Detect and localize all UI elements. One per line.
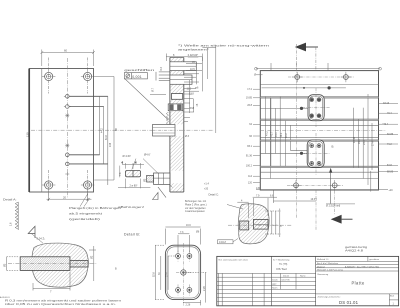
counterbore hole bottom-right [81, 170, 94, 201]
svg-text:*49.4: *49.4 [383, 123, 389, 126]
right block lines [316, 256, 399, 305]
svg-text:ab,5 eingesenkt: ab,5 eingesenkt [69, 212, 102, 216]
svg-text:Blatt: Blatt [390, 295, 394, 298]
internal dim verticals left with rotated labels [266, 97, 286, 167]
svg-text:10.5: 10.5 [190, 68, 195, 71]
left view vertical centerline [66, 58, 68, 198]
svg-text:(gerändelt): (gerändelt) [69, 217, 100, 221]
svg-text:geschliffen: geschliffen [124, 68, 155, 72]
svg-text:0,001: 0,001 [132, 75, 142, 79]
svg-text:Datum: Datum [283, 275, 289, 278]
upper obround left leader dot [260, 107, 308, 110]
svg-text:0.04 Z: 0.04 Z [219, 241, 226, 244]
svg-text:A 90MnV8 ~ 62+2 HRC 9 DIN: A 90MnV8 ~ 62+2 HRC 9 DIN 17350 [345, 265, 380, 268]
detail B holes top pair [176, 254, 192, 259]
svg-text:Benennung: Benennung [318, 274, 329, 276]
svg-text:Detail A:: Detail A: [3, 198, 17, 201]
svg-text:16.6: 16.6 [186, 224, 191, 227]
small cross mark 2 [65, 144, 69, 148]
svg-text:gez.datum: gez.datum [369, 258, 379, 261]
main plate outline [260, 71, 378, 190]
dashed lines below plate [334, 191, 336, 216]
plate horizontal band y119-120.5 right [260, 119, 378, 121]
svg-text:60.85: 60.85 [387, 133, 394, 136]
detail A pin step [70, 260, 88, 267]
svg-text:0.04 Z↓: 0.04 Z↓ [37, 236, 46, 240]
svg-text:108: 108 [109, 142, 112, 147]
detail A hatched blob [32, 243, 88, 287]
svg-text:Ø: Ø [254, 74, 256, 77]
detail C stepped bore [240, 221, 249, 230]
svg-text:52.6: 52.6 [152, 272, 155, 277]
section cut dashed lines top [297, 44, 316, 71]
svg-text:bearb: bearb [272, 279, 278, 282]
svg-text:angelassen*: angelassen* [178, 47, 209, 51]
svg-text:46.4: 46.4 [387, 112, 392, 115]
left outside dim labels [246, 69, 257, 184]
hole top-right crosshair [341, 72, 351, 82]
detail B outer obround [165, 245, 200, 299]
holes centerline top [288, 76, 354, 78]
lower obround centerlines [300, 133, 330, 175]
svg-text:100.2: 100.2 [246, 164, 253, 167]
counterbore hole bottom-left [42, 170, 55, 201]
left view thick left edge [28, 69, 30, 193]
svg-text:zusammenpassen: zusammenpassen [185, 210, 205, 213]
dim 19.3 below plate [273, 191, 316, 204]
left view plate outline [30, 69, 94, 193]
svg-text:27.4: 27.4 [372, 141, 375, 146]
svg-text:64.2: 64.2 [285, 133, 288, 138]
small center hole 4 with leader [66, 162, 108, 166]
svg-text:58.1: 58.1 [280, 132, 283, 137]
svg-text:Ø4.6': Ø4.6' [144, 153, 151, 157]
svg-text:+20: +20 [389, 189, 394, 192]
section mid bore feature [171, 94, 182, 100]
main view vertical centerline left holes [296, 62, 298, 218]
svg-text:120: 120 [248, 181, 253, 184]
datum line with end circles [255, 67, 382, 70]
upper obround centerlines [302, 88, 330, 127]
svg-text:2 ø·80°: 2 ø·80° [130, 185, 138, 188]
section hole feature with dark plugs [168, 104, 183, 111]
plate horizontal band y166-167.6 right [260, 166, 378, 168]
title block outer frame [217, 256, 399, 305]
svg-text:Material:: Material: [317, 265, 325, 268]
stud feature [147, 173, 170, 184]
detail B holes bottom pair [176, 288, 192, 293]
section right dim stack [150, 47, 216, 134]
svg-text:øBohrungen!: øBohrungen! [118, 206, 145, 209]
left view horizontal centerline [31, 129, 214, 131]
parts list columns [218, 273, 296, 305]
hole top-left crosshair [292, 72, 302, 82]
svg-text:DS 01.01: DS 01.01 [339, 300, 359, 305]
section hatch upper strip [170, 58, 184, 193]
counterbore hole top-left [42, 58, 55, 94]
svg-text:2.26: 2.26 [203, 286, 206, 291]
svg-text:Platte: Platte [352, 281, 365, 286]
svg-text:2.26: 2.26 [186, 304, 191, 307]
svg-text:Ø.7: Ø.7 [152, 87, 155, 92]
svg-text:DS Tool: DS Tool [277, 267, 287, 271]
svg-text:über 0,05 zu am Querausrichten: über 0,05 zu am Querausrichten hinterlas… [5, 303, 117, 306]
svg-text:17.2: 17.2 [247, 88, 252, 91]
lower obround left leader dot [260, 152, 307, 155]
detail A pin slot [20, 257, 70, 271]
svg-text:91.36: 91.36 [246, 155, 253, 158]
geschliffen leader [125, 79, 169, 120]
small cross mark 3 [65, 172, 69, 176]
svg-text:114: 114 [248, 175, 253, 178]
svg-text:130: 130 [25, 132, 29, 137]
svg-text:B.: B. [332, 145, 335, 149]
band glow lines [260, 97, 378, 167]
lower obround boss [307, 140, 324, 168]
svg-text:11.2: 11.2 [187, 87, 192, 90]
detail A centerline [8, 263, 97, 265]
svg-text:49.4: 49.4 [275, 132, 278, 137]
upper obround boss [308, 95, 324, 121]
svg-text:Ø.3: Ø.3 [185, 135, 190, 138]
svg-text:12.8: 12.8 [189, 93, 194, 96]
svg-text:Ø 2,5(10 tief): Ø 2,5(10 tief) [326, 205, 340, 208]
section left flange marks [156, 72, 170, 81]
plate horizontal band y96-98 left [260, 97, 378, 99]
svg-text:40.2: 40.2 [265, 131, 268, 136]
note leader to bottom hole [80, 194, 88, 207]
svg-text:A4/Q2 4.8: A4/Q2 4.8 [345, 249, 364, 252]
svg-text:84.8: 84.8 [387, 164, 392, 167]
surface flag triangle [28, 226, 35, 238]
svg-text:Bez 4 d'or? Werkz-bau: Bez 4 d'or? Werkz-bau [317, 262, 339, 265]
detail C 0.04 Z box [218, 240, 234, 244]
flag leader [32, 234, 44, 244]
plate horizontal band y140 left [260, 140, 378, 142]
svg-text:Werkstoff: 1.154 P=xx,xx kg: Werkstoff: 1.154 P=xx,xx kg [317, 269, 344, 272]
svg-text:23.4: 23.4 [363, 140, 366, 145]
main plate right inner vertical [367, 94, 369, 185]
ext verticals above plate top [271, 63, 328, 71]
detail C centerline [228, 224, 292, 226]
svg-text:Detail B:: Detail B: [124, 233, 140, 237]
svg-text:für © Bearbeitung: für © Bearbeitung [273, 258, 290, 261]
section big left slot box [153, 125, 176, 137]
section outline verticals [170, 58, 184, 193]
svg-text:20: 20 [63, 195, 66, 199]
right outside dim labels [383, 102, 394, 173]
svg-text:0.02/100°: 0.02/100° [188, 54, 198, 57]
svg-text:Zeichnungs-nr.bezeichn.:: Zeichnungs-nr.bezeichn.: [318, 296, 342, 299]
section bottom flag [153, 187, 167, 200]
main view horizontal centerline [260, 129, 386, 131]
svg-text:*) Welle am situier nö-sung-w: *) Welle am situier nö-sung-wittern [178, 44, 270, 48]
detail A left dim [7, 257, 19, 271]
svg-text:Plangefr.(4x) in Böhrungen: Plangefr.(4x) in Böhrungen [69, 206, 122, 210]
right side dimension verticals [94, 77, 114, 186]
svg-text:19.85: 19.85 [246, 97, 253, 100]
right outside dim ticks [379, 103, 399, 171]
detail A bottom dim 7 [33, 272, 70, 291]
bottom dimension 20 [47, 190, 92, 201]
svg-text:27.4: 27.4 [165, 272, 168, 277]
holes centerline bottom [287, 184, 343, 186]
svg-text:+1.4: +1.4 [204, 183, 209, 186]
small center hole 2 with leader [64, 105, 104, 109]
detail B left dims [155, 245, 165, 299]
svg-text:Nr.1 zeichnung oder norm stüc: Nr.1 zeichnung oder norm stück [219, 259, 249, 262]
detail B top dims [165, 227, 200, 252]
detail B center hole [181, 270, 186, 275]
counterbore hole top-right [81, 58, 94, 94]
detail B right bottom dims [183, 273, 206, 306]
svg-text:19.3°): 19.3°) [311, 198, 318, 201]
main plate inner vertical line [269, 97, 271, 179]
svg-text:04.07.96: 04.07.96 [282, 280, 291, 282]
internal dim verticals right with rotated labels [353, 108, 372, 179]
svg-text:130: 130 [256, 187, 261, 190]
svg-text:TU (TH): TU (TH) [279, 264, 288, 266]
roughness zigzag on section left [166, 112, 168, 125]
groove lines bottom [260, 171, 378, 173]
nut part dims [118, 162, 150, 189]
svg-text:R 0,3 mm/messen ab eingesenkt: R 0,3 mm/messen ab eingesenkt und sauber… [5, 300, 122, 303]
two-square nut part [125, 171, 140, 177]
small center hole 1 with leader [64, 95, 108, 99]
detail C note leader [227, 205, 243, 210]
detail A right extension and dim [70, 246, 96, 281]
knurl zigzag column [15, 202, 18, 230]
svg-text:44.2: 44.2 [101, 128, 104, 133]
small cross mark 1 [65, 114, 69, 118]
bottom section arrow [331, 215, 353, 224]
svg-text:16.16: 16.16 [353, 136, 356, 143]
svg-text:33.16: 33.16 [383, 102, 390, 105]
detail B inner dim box [168, 256, 176, 290]
svg-text:Ø18: Ø18 [190, 107, 195, 110]
svg-text:Norm: Norm [272, 287, 277, 290]
top dimension 60 [41, 50, 95, 67]
svg-text:64.8: 64.8 [105, 135, 108, 140]
hole bottom-right crosshair [330, 180, 340, 190]
leader dia 2.5 tief with arrow [329, 168, 332, 204]
svg-text:71.2: 71.2 [387, 143, 392, 146]
main view vertical centerline obrounds below [230, 174, 316, 176]
svg-text:°: ° [256, 69, 257, 72]
pin line y88 with dot [262, 86, 346, 89]
svg-text:gepr: gepr [272, 283, 276, 286]
bottom dim line 130/+20 [256, 189, 388, 191]
detail C hatched blob [238, 204, 269, 244]
svg-text:19.3: 19.3 [358, 139, 361, 144]
svg-text:88.85: 88.85 [387, 170, 394, 173]
detail B inner obround [167, 247, 199, 298]
dia 4.5 leaders [132, 159, 136, 170]
detail B centerlines [176, 243, 191, 304]
svg-text:60: 60 [64, 49, 67, 53]
left outside dim ticks [253, 75, 263, 183]
hole bottom-left crosshair [291, 180, 301, 190]
small center hole 3 with leader [66, 153, 100, 157]
extra plate horizontals [260, 84, 378, 150]
svg-text:Detail C:: Detail C: [209, 192, 220, 196]
detail C right dim stack [265, 209, 281, 238]
svg-text:83.1: 83.1 [247, 145, 252, 148]
svg-text:A 03.08.01: A 03.08.01 [0, 296, 10, 299]
svg-text:+20: +20 [204, 188, 209, 191]
svg-text:Name: Name [300, 276, 306, 278]
section arrow top [295, 43, 318, 52]
svg-text:26.8: 26.8 [247, 104, 252, 107]
svg-text:Maßstab 1:1: Maßstab 1:1 [317, 258, 329, 261]
parts list rows [217, 273, 316, 301]
title block main verticals [270, 256, 272, 305]
dim ext vertical right of obround [370, 171, 372, 192]
section top bore feature [170, 62, 196, 85]
section top hatch sliver [170, 71, 184, 75]
svg-text:Ø 4.6±': Ø 4.6±' [123, 154, 132, 158]
detail C top dims [237, 197, 277, 218]
svg-text:42.7: 42.7 [271, 131, 274, 136]
left view inner step line [41, 69, 43, 193]
